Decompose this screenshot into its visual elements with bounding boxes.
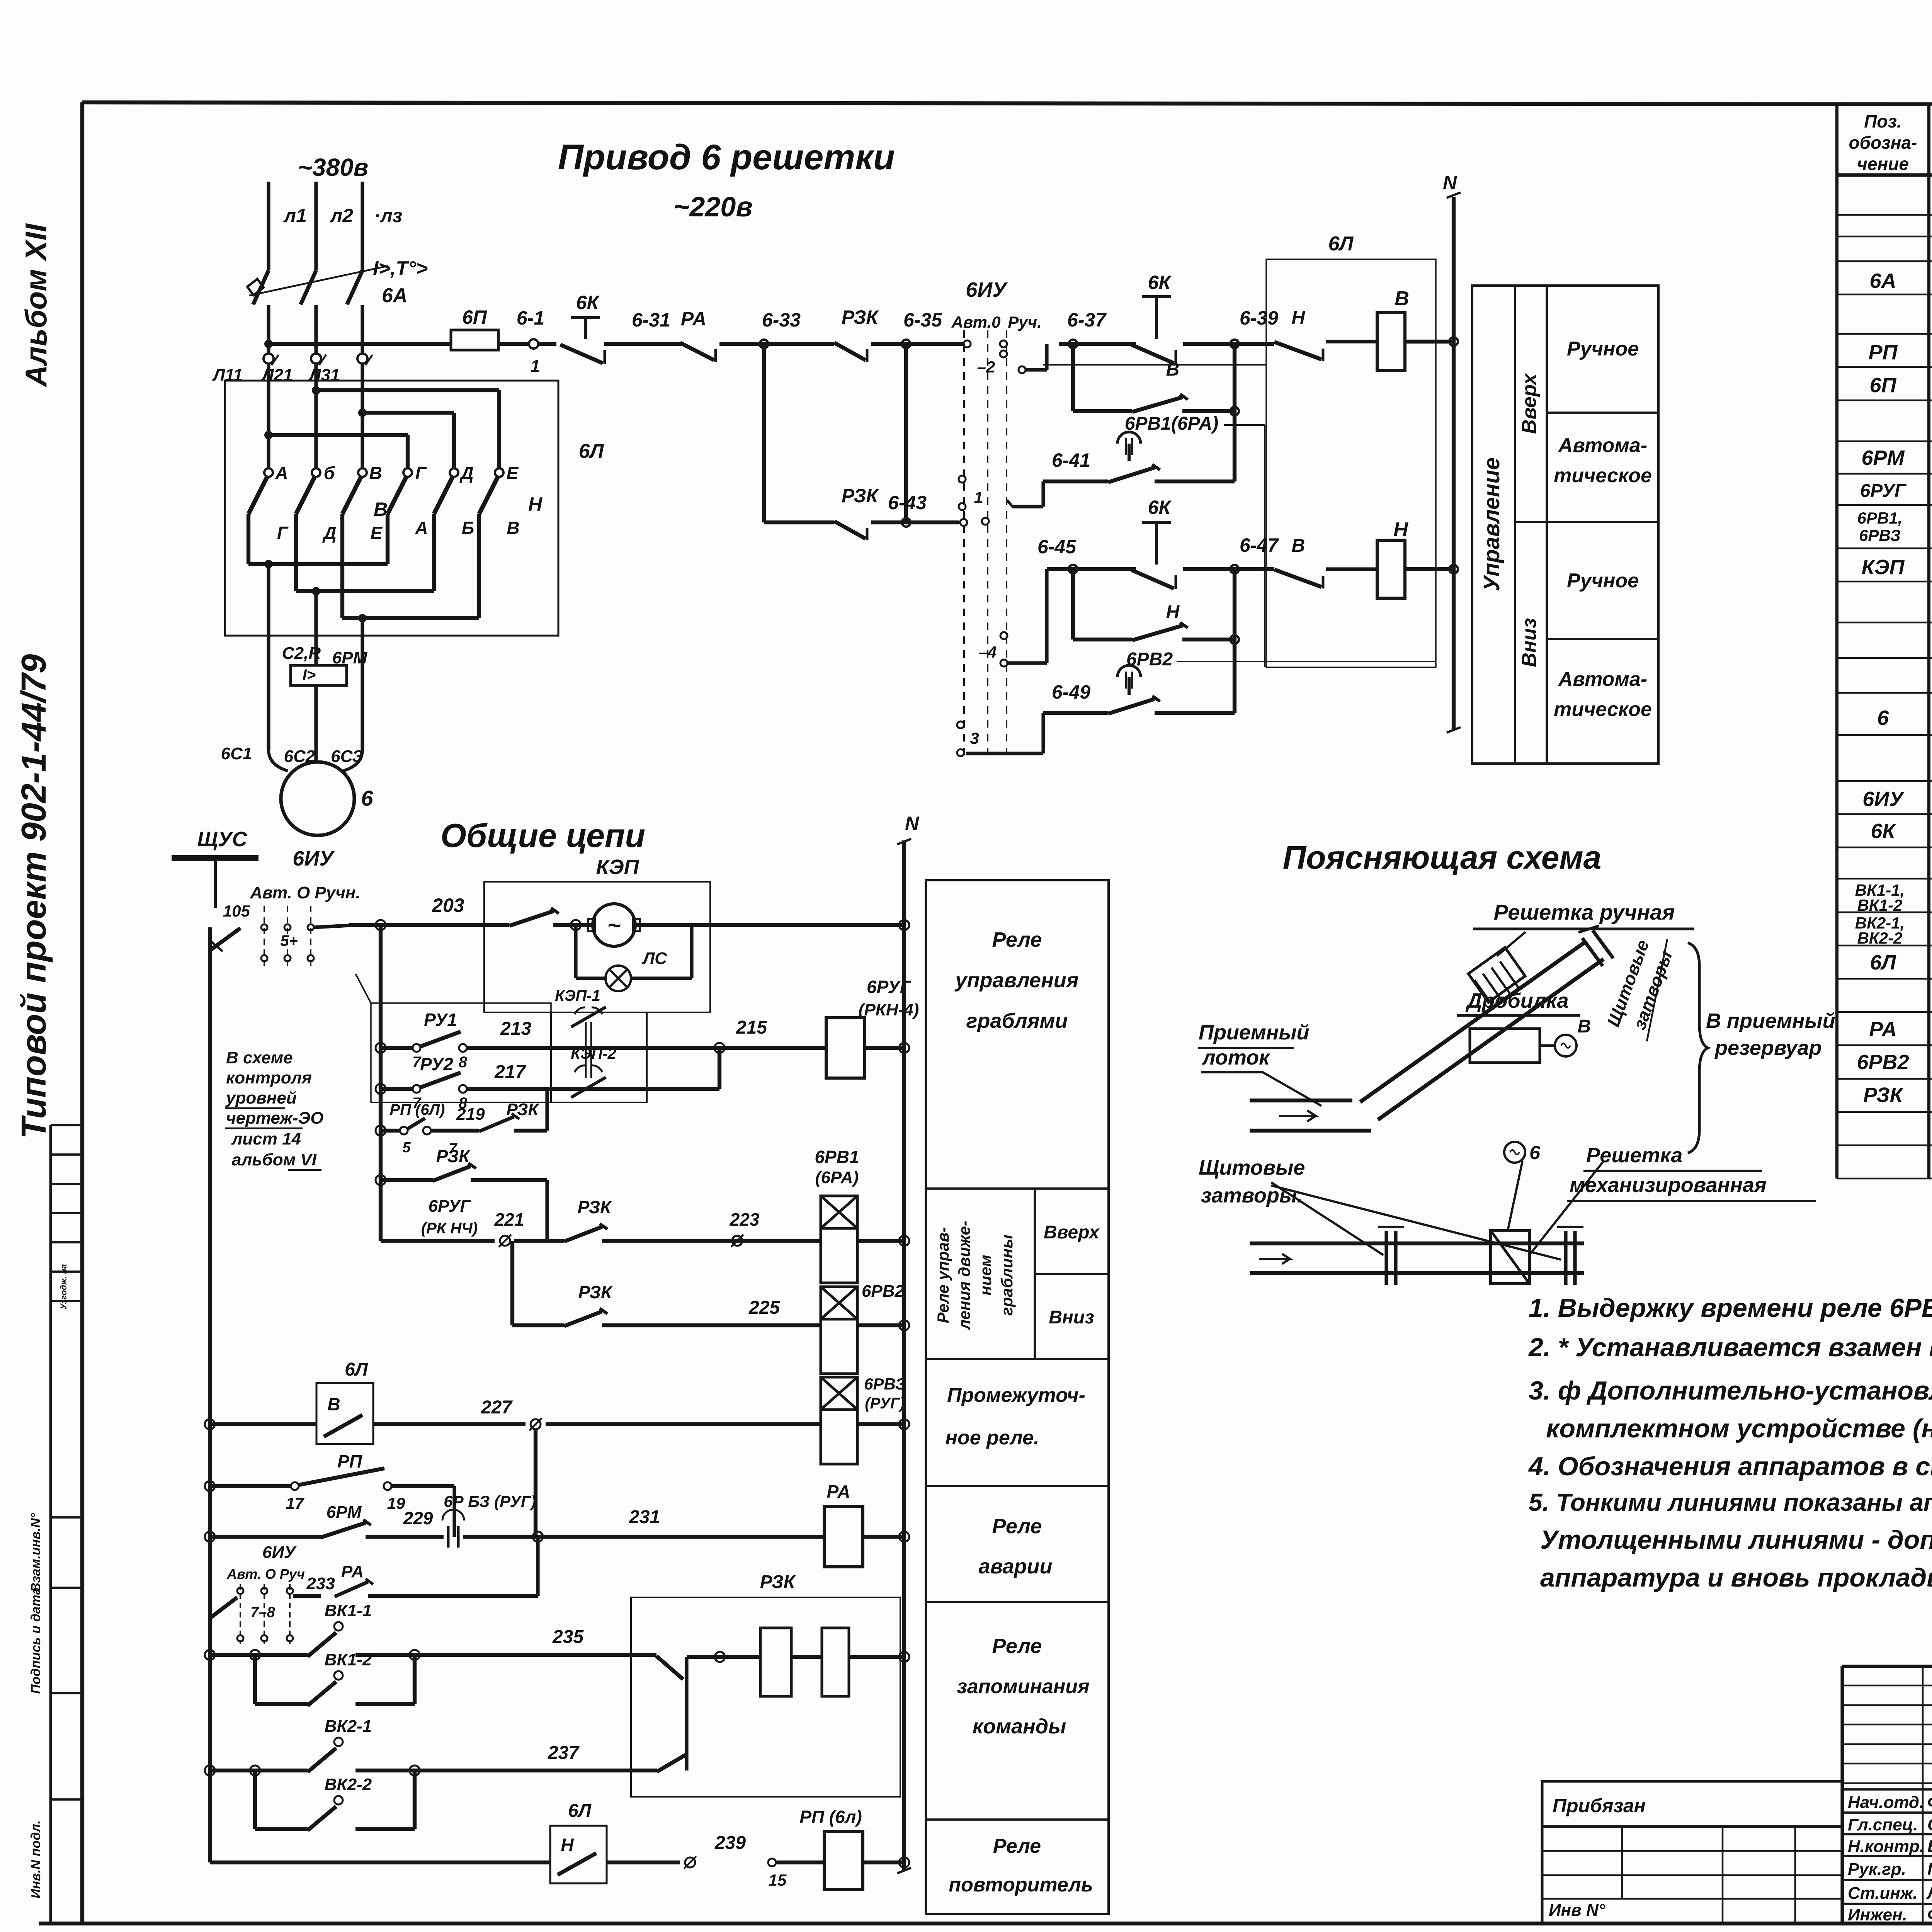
svg-text:233: 233 bbox=[306, 1574, 335, 1593]
svg-text:альбом VI: альбом VI bbox=[232, 1150, 317, 1169]
svg-text:225: 225 bbox=[748, 1298, 780, 1318]
svg-text:А: А bbox=[275, 463, 288, 483]
svg-text:РА: РА bbox=[681, 308, 706, 330]
svg-text:6А: 6А bbox=[1869, 269, 1896, 293]
svg-text:тическое: тическое bbox=[1554, 464, 1652, 487]
svg-text:В: В bbox=[507, 518, 519, 538]
svg-text:Реле управ-: Реле управ- bbox=[934, 1227, 952, 1323]
svg-text:Автома-: Автома- bbox=[1558, 434, 1647, 457]
svg-text:Привод 6 решетки: Привод 6 решетки bbox=[558, 138, 895, 177]
svg-text:Л31: Л31 bbox=[308, 366, 340, 384]
svg-text:6К: 6К bbox=[1148, 497, 1172, 518]
svg-text:запоминания: запоминания bbox=[957, 1675, 1089, 1698]
svg-text:Пейсахович: Пейсахович bbox=[1927, 1860, 1932, 1879]
svg-text:~380в: ~380в bbox=[298, 153, 369, 181]
svg-text:уровней: уровней bbox=[225, 1088, 297, 1107]
svg-text:ЩУС: ЩУС bbox=[197, 828, 248, 851]
svg-text:РУ1: РУ1 bbox=[424, 1010, 457, 1030]
svg-text:В: В bbox=[1292, 536, 1305, 556]
svg-text:229: 229 bbox=[403, 1508, 433, 1528]
svg-text:231: 231 bbox=[629, 1507, 660, 1527]
svg-text:Ст.инж.: Ст.инж. bbox=[1848, 1884, 1918, 1903]
svg-text:Д: Д bbox=[322, 523, 336, 543]
svg-text:А: А bbox=[415, 518, 428, 538]
svg-text:РЗК: РЗК bbox=[507, 1100, 540, 1119]
svg-text:Инв.N подл.: Инв.N подл. bbox=[29, 1820, 43, 1898]
svg-text:6-47: 6-47 bbox=[1240, 534, 1279, 556]
svg-text:6-31: 6-31 bbox=[632, 309, 670, 331]
svg-text:6РВ1(6РА): 6РВ1(6РА) bbox=[1125, 413, 1218, 434]
svg-text:комплектном устройстве (нку: комплектном устройстве (нку). bbox=[1546, 1414, 1932, 1443]
svg-text:6-41: 6-41 bbox=[1052, 449, 1090, 471]
svg-text:контроля: контроля bbox=[226, 1068, 312, 1087]
svg-text:Вверх: Вверх bbox=[1518, 373, 1541, 434]
svg-text:235: 235 bbox=[552, 1627, 584, 1647]
svg-text:РЗК: РЗК bbox=[1863, 1083, 1904, 1107]
svg-text:Фролов: Фролов bbox=[1927, 1793, 1932, 1812]
svg-text:239: 239 bbox=[714, 1833, 746, 1853]
svg-text:В схеме: В схеме bbox=[226, 1048, 293, 1067]
svg-text:РП (6Л): РП (6Л) bbox=[390, 1101, 445, 1118]
svg-text:Е: Е bbox=[507, 463, 519, 483]
svg-text:Н: Н bbox=[1166, 602, 1180, 622]
svg-text:Сбозная: Сбозная bbox=[1927, 1815, 1932, 1834]
svg-text:Утолщенными линиями - дополни: Утолщенными линиями - дополнительно уста… bbox=[1540, 1525, 1932, 1554]
svg-text:6-35: 6-35 bbox=[903, 309, 942, 331]
svg-text:I>,T°>: I>,T°> bbox=[373, 257, 428, 280]
svg-text:команды: команды bbox=[973, 1715, 1066, 1738]
svg-text:Б: Б bbox=[462, 518, 474, 538]
svg-text:Н.контр.: Н.контр. bbox=[1848, 1837, 1924, 1856]
svg-text:Щитовые: Щитовые bbox=[1199, 1156, 1305, 1179]
svg-text:чертеж-ЭО: чертеж-ЭО bbox=[226, 1109, 323, 1128]
svg-text:ЛС: ЛС bbox=[642, 949, 667, 968]
svg-text:Дробилка: Дробилка bbox=[1465, 989, 1568, 1012]
svg-text:6СЗ: 6СЗ bbox=[331, 747, 363, 766]
svg-text:6РВ2: 6РВ2 bbox=[862, 1282, 905, 1301]
svg-text:227: 227 bbox=[481, 1397, 513, 1418]
svg-text:РЗК: РЗК bbox=[842, 306, 879, 328]
svg-text:ВК1-2: ВК1-2 bbox=[325, 1650, 372, 1669]
svg-text:5. Тонкими линиями показаны: 5. Тонкими линиями показаны аппараты и с… bbox=[1529, 1488, 1932, 1516]
svg-text:нием: нием bbox=[976, 1255, 995, 1295]
svg-text:Францева: Францева bbox=[1927, 1905, 1932, 1924]
svg-text:6ИУ: 6ИУ bbox=[262, 1543, 297, 1562]
svg-text:Г: Г bbox=[277, 523, 289, 543]
svg-text:213: 213 bbox=[500, 1019, 531, 1039]
svg-text:6РМ: 6РМ bbox=[1861, 446, 1905, 469]
svg-text:6РВ1,: 6РВ1, bbox=[1857, 509, 1903, 527]
svg-text:РА: РА bbox=[341, 1562, 364, 1581]
svg-text:Промежуточ-: Промежуточ- bbox=[947, 1384, 1085, 1406]
svg-text:6-45: 6-45 bbox=[1037, 536, 1077, 558]
svg-text:4. Обозначения аппаратов в: 4. Обозначения аппаратов в скобках даны … bbox=[1528, 1452, 1932, 1481]
svg-text:3. ф Дополнительно-установленн: 3. ф Дополнительно-установленные зажимы … bbox=[1529, 1376, 1932, 1405]
svg-text:6РУГ: 6РУГ bbox=[429, 1197, 471, 1216]
svg-text:6К: 6К bbox=[576, 292, 600, 313]
svg-text:Общие цепи: Общие цепи bbox=[440, 817, 645, 854]
svg-text:ВК2-1: ВК2-1 bbox=[325, 1717, 372, 1736]
svg-text:Прибязан: Прибязан bbox=[1553, 1795, 1646, 1816]
svg-text:Вверх: Вверх bbox=[1044, 1222, 1100, 1243]
svg-text:резервуар: резервуар bbox=[1714, 1036, 1822, 1060]
svg-text:6-39: 6-39 bbox=[1240, 307, 1278, 329]
svg-text:РЗК: РЗК bbox=[842, 485, 879, 507]
svg-text:6: 6 bbox=[1529, 1142, 1541, 1163]
svg-text:17: 17 bbox=[286, 1494, 304, 1512]
svg-text:РЗК: РЗК bbox=[436, 1146, 471, 1166]
svg-text:6-49: 6-49 bbox=[1052, 681, 1090, 703]
svg-text:6РВЗ: 6РВЗ bbox=[1859, 526, 1901, 544]
svg-text:Приемный: Приемный bbox=[1199, 1021, 1310, 1044]
svg-text:Нач.отд.: Нач.отд. bbox=[1848, 1793, 1924, 1812]
svg-text:Гл.спец.: Гл.спец. bbox=[1848, 1815, 1918, 1834]
svg-text:РА: РА bbox=[827, 1481, 850, 1502]
svg-text:затворы.: затворы. bbox=[1201, 1184, 1303, 1207]
svg-text:6РВ2: 6РВ2 bbox=[1857, 1051, 1909, 1074]
svg-text:Н: Н bbox=[561, 1835, 574, 1855]
svg-text:В: В bbox=[374, 498, 388, 520]
svg-text:Д: Д bbox=[459, 463, 473, 483]
svg-text:N: N bbox=[905, 813, 919, 834]
svg-text:6-1: 6-1 bbox=[517, 307, 544, 329]
svg-text:обозна-: обозна- bbox=[1849, 133, 1917, 153]
svg-text:N: N bbox=[1443, 172, 1457, 194]
svg-text:6РУГ: 6РУГ bbox=[1860, 481, 1907, 501]
svg-text:Вниз: Вниз bbox=[1518, 618, 1541, 667]
svg-text:аппаратура и вновь проклады: аппаратура и вновь прокладываемые связи. bbox=[1540, 1563, 1932, 1592]
svg-text:Альбом XII: Альбом XII bbox=[19, 223, 53, 388]
svg-text:6РВЗ: 6РВЗ bbox=[864, 1375, 906, 1393]
svg-text:граблями: граблями bbox=[966, 1009, 1068, 1032]
svg-text:ВК2-2: ВК2-2 bbox=[1857, 929, 1903, 947]
svg-text:Вниз: Вниз bbox=[1049, 1307, 1094, 1328]
svg-text:237: 237 bbox=[548, 1743, 580, 1763]
svg-text:Н: Н bbox=[528, 493, 543, 515]
svg-text:5+: 5+ bbox=[280, 932, 298, 949]
svg-text:КЭП-1: КЭП-1 bbox=[555, 987, 600, 1004]
svg-text:–4: –4 bbox=[979, 643, 997, 661]
svg-text:6Л: 6Л bbox=[345, 1359, 368, 1380]
svg-text:ВК1-1: ВК1-1 bbox=[325, 1601, 372, 1620]
svg-text:лист 14: лист 14 bbox=[231, 1129, 301, 1148]
svg-text:6А: 6А bbox=[382, 284, 407, 307]
svg-text:6Л: 6Л bbox=[1328, 233, 1354, 255]
svg-text:В: В bbox=[1166, 359, 1180, 380]
svg-text:РЗК: РЗК bbox=[760, 1572, 796, 1592]
svg-text:–2: –2 bbox=[977, 358, 995, 376]
svg-text:6Р БЗ (РУГ): 6Р БЗ (РУГ) bbox=[444, 1492, 536, 1510]
svg-text:РУ2: РУ2 bbox=[420, 1054, 453, 1074]
svg-text:ВК1-2: ВК1-2 bbox=[1857, 896, 1903, 914]
svg-text:Узгодж. на: Узгодж. на bbox=[59, 1264, 68, 1309]
svg-text:6РВ1: 6РВ1 bbox=[815, 1147, 859, 1167]
svg-text:С2,R: С2,R bbox=[282, 644, 321, 663]
svg-text:6-43: 6-43 bbox=[888, 492, 927, 514]
svg-text:граблины: граблины bbox=[998, 1235, 1016, 1316]
svg-text:Руч.: Руч. bbox=[1008, 313, 1042, 331]
svg-text:тическое: тическое bbox=[1554, 698, 1652, 721]
svg-text:219: 219 bbox=[456, 1105, 485, 1124]
svg-text:2. * Устанавливается взамен: 2. * Устанавливается взамен поста ПКЕ212… bbox=[1528, 1333, 1932, 1362]
svg-text:Поз.: Поз. bbox=[1864, 111, 1901, 131]
svg-text:Подпись и дата: Подпись и дата bbox=[29, 1587, 43, 1694]
svg-text:В: В bbox=[369, 463, 382, 483]
svg-text:управления: управления bbox=[954, 969, 1079, 992]
svg-text:3: 3 bbox=[970, 729, 979, 747]
svg-text:6-33: 6-33 bbox=[762, 309, 801, 331]
svg-text:6ИУ: 6ИУ bbox=[1862, 787, 1905, 811]
svg-text:В: В bbox=[1578, 1016, 1591, 1037]
svg-text:6П: 6П bbox=[1870, 374, 1897, 397]
svg-text:Н: Н bbox=[1292, 308, 1306, 328]
svg-text:6ИУ: 6ИУ bbox=[966, 278, 1008, 301]
svg-text:6К: 6К bbox=[1148, 272, 1172, 293]
svg-text:6Л: 6Л bbox=[579, 440, 604, 463]
svg-text:Инв N°: Инв N° bbox=[1549, 1901, 1605, 1920]
svg-text:(РК НЧ): (РК НЧ) bbox=[421, 1220, 478, 1237]
svg-text:5: 5 bbox=[402, 1139, 411, 1156]
svg-text:Г: Г bbox=[415, 463, 427, 483]
svg-text:ления движе-: ления движе- bbox=[955, 1221, 973, 1330]
svg-text:(РУГ): (РУГ) bbox=[865, 1395, 905, 1412]
svg-text:6-37: 6-37 bbox=[1067, 309, 1107, 331]
svg-text:Ручное: Ручное bbox=[1567, 570, 1639, 592]
svg-text:1. Выдержку времени реле 6РВ: 1. Выдержку времени реле 6РВ1, 6РВ2, 6РВ… bbox=[1529, 1293, 1932, 1323]
svg-text:чение: чение bbox=[1857, 154, 1909, 174]
svg-text:Реле: Реле bbox=[992, 928, 1042, 951]
svg-text:Управление: Управление bbox=[1479, 457, 1504, 591]
svg-text:В приемный: В приемный bbox=[1706, 1009, 1835, 1032]
svg-text:КЭП: КЭП bbox=[596, 855, 639, 879]
svg-text:Л11: Л11 bbox=[212, 366, 243, 384]
svg-text:6С1: 6С1 bbox=[221, 744, 252, 763]
svg-text:203: 203 bbox=[432, 895, 464, 916]
svg-text:аварии: аварии bbox=[979, 1555, 1053, 1578]
svg-text:РП: РП bbox=[1869, 341, 1898, 364]
svg-text:РП: РП bbox=[337, 1451, 362, 1471]
svg-text:6Л: 6Л bbox=[1870, 951, 1896, 974]
svg-text:~220в: ~220в bbox=[673, 192, 753, 223]
svg-text:механизированная: механизированная bbox=[1570, 1173, 1767, 1197]
svg-text:105: 105 bbox=[223, 902, 250, 920]
svg-text:Авт. О Руч: Авт. О Руч bbox=[226, 1566, 305, 1582]
svg-text:6: 6 bbox=[361, 786, 373, 810]
svg-text:I>: I> bbox=[303, 667, 316, 684]
svg-text:Л21: Л21 bbox=[261, 366, 293, 384]
svg-text:6: 6 bbox=[1877, 706, 1889, 730]
svg-text:Е: Е bbox=[371, 523, 383, 543]
svg-text:л2: л2 bbox=[330, 205, 353, 226]
svg-text:8: 8 bbox=[459, 1054, 468, 1071]
svg-text:Инжен.: Инжен. bbox=[1848, 1905, 1907, 1924]
svg-text:РА: РА bbox=[1869, 1018, 1897, 1041]
svg-text:6ИУ: 6ИУ bbox=[293, 847, 335, 870]
svg-text:повторитель: повторитель bbox=[949, 1874, 1093, 1896]
svg-text:Бондарь: Бондарь bbox=[1927, 1837, 1932, 1856]
svg-text:223: 223 bbox=[730, 1209, 760, 1230]
svg-text:б: б bbox=[324, 463, 335, 483]
svg-text:Реле: Реле bbox=[992, 1634, 1042, 1658]
svg-text:6П: 6П bbox=[462, 306, 487, 328]
svg-text:Авт. О Ручн.: Авт. О Ручн. bbox=[250, 883, 360, 902]
svg-text:7–8: 7–8 bbox=[250, 1604, 275, 1621]
svg-text:Типовой проект 902-1-44/79: Типовой проект 902-1-44/79 bbox=[15, 654, 53, 1139]
svg-text:1: 1 bbox=[531, 357, 540, 376]
svg-text:~: ~ bbox=[607, 912, 621, 938]
svg-text:·лз: ·лз bbox=[374, 205, 402, 226]
svg-text:В: В bbox=[327, 1394, 340, 1414]
svg-text:6К: 6К bbox=[1871, 820, 1896, 843]
svg-text:Взам.инв.N°: Взам.инв.N° bbox=[29, 1513, 43, 1592]
svg-text:6Л: 6Л bbox=[568, 1801, 592, 1821]
svg-text:(6РА): (6РА) bbox=[815, 1168, 859, 1187]
svg-text:В: В bbox=[1395, 287, 1409, 310]
svg-text:6РМ: 6РМ bbox=[327, 1503, 362, 1522]
svg-text:19: 19 bbox=[387, 1494, 405, 1512]
svg-text:РЗК: РЗК bbox=[578, 1197, 612, 1217]
svg-text:Лозовская: Лозовская bbox=[1926, 1884, 1932, 1903]
svg-text:217: 217 bbox=[494, 1062, 526, 1082]
svg-text:Рук.гр.: Рук.гр. bbox=[1848, 1860, 1906, 1879]
svg-text:15: 15 bbox=[769, 1871, 787, 1889]
svg-text:221: 221 bbox=[494, 1209, 524, 1230]
svg-text:КЭП: КЭП bbox=[1862, 556, 1905, 579]
svg-text:Поясняющая схема: Поясняющая схема bbox=[1283, 839, 1602, 876]
svg-text:Ручное: Ручное bbox=[1567, 338, 1639, 360]
svg-text:1: 1 bbox=[974, 488, 983, 507]
svg-text:лоток: лоток bbox=[1201, 1046, 1270, 1069]
svg-text:Авт.0: Авт.0 bbox=[951, 313, 1001, 331]
svg-text:л1: л1 bbox=[283, 205, 307, 226]
svg-text:Автома-: Автома- bbox=[1558, 668, 1647, 690]
svg-text:215: 215 bbox=[736, 1017, 767, 1038]
svg-text:6С2: 6С2 bbox=[284, 747, 315, 766]
svg-text:Н: Н bbox=[1393, 519, 1408, 541]
svg-text:Реле: Реле bbox=[992, 1515, 1042, 1538]
svg-text:(РКН-4): (РКН-4) bbox=[859, 1000, 919, 1019]
svg-text:Решетка ручная: Решетка ручная bbox=[1494, 900, 1675, 924]
svg-text:ВК2-2: ВК2-2 bbox=[325, 1775, 372, 1794]
svg-text:ное реле.: ное реле. bbox=[946, 1427, 1039, 1449]
svg-text:Реле: Реле bbox=[993, 1835, 1041, 1857]
svg-text:РП (6л): РП (6л) bbox=[799, 1807, 862, 1827]
svg-text:РЗК: РЗК bbox=[578, 1282, 613, 1302]
